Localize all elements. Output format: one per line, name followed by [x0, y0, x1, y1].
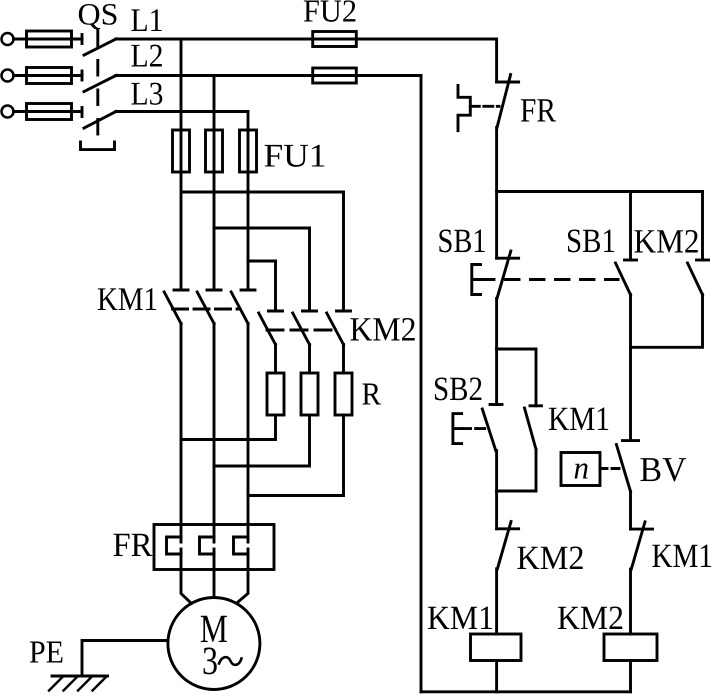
wire SB1 right column: [629, 192, 632, 261]
wire KM2 pole3 down: [342, 345, 345, 374]
contactor KM2 pole3: [327, 311, 351, 345]
wire L1 input: [14, 38, 83, 41]
SB1 actuator E: [472, 265, 481, 295]
svg-text:KM1: KM1: [652, 538, 713, 575]
contactor KM1 pole2: [197, 290, 221, 324]
SB1 linkage dashed: [481, 278, 619, 281]
branch phase3 vertical: [274, 261, 277, 311]
FR link dashed: [470, 105, 499, 108]
wire L3: [116, 110, 248, 113]
FR heater3 stub: [247, 549, 250, 570]
terminal L2: [2, 70, 14, 82]
QS handle bracket: [81, 142, 115, 150]
coil KM2: [604, 634, 657, 661]
wire KM1 aux rejoin: [497, 449, 536, 491]
SB2 link dashed: [462, 427, 488, 430]
branch phase2 vertical: [308, 228, 311, 311]
terminal L3: [2, 106, 14, 118]
ground bar: [52, 675, 108, 678]
control rail left (from FU2b): [420, 76, 423, 692]
pushbutton SB1 NO (right): [616, 260, 637, 295]
resistor R2: [301, 373, 318, 415]
fuse FU1b: [206, 130, 223, 172]
switch QS pole2: [82, 71, 116, 92]
control top horizontal: [497, 190, 703, 193]
svg-text:FU1: FU1: [264, 139, 327, 175]
wire phase3 drop: [247, 112, 250, 131]
svg-text:QS: QS: [78, 0, 119, 32]
wire KM2 coil to bus: [629, 661, 632, 692]
wire L3 input: [14, 110, 83, 113]
wire phase1 to FR: [180, 324, 183, 543]
svg-text:L2: L2: [131, 39, 164, 75]
svg-text:SB1: SB1: [566, 223, 616, 260]
SB2 actuator E: [453, 414, 462, 444]
terminal L1: [2, 33, 14, 45]
svg-text:PE: PE: [29, 634, 64, 670]
wire FR to SB1: [495, 128, 498, 259]
contact BV NO: [616, 441, 638, 492]
wire KM2 aux rejoin: [631, 295, 703, 348]
FR heater3: [234, 537, 249, 554]
wire L1: [116, 38, 497, 41]
POWER-SECTION: [2, 0, 497, 691]
wire phase1 drop: [180, 39, 183, 130]
svg-text:BV: BV: [640, 450, 687, 489]
branch phase2 horizontal: [214, 227, 310, 230]
svg-text:FU2: FU2: [303, 0, 357, 29]
wire phase2 to KM1: [213, 172, 216, 290]
contact KM1 aux NO: [525, 406, 542, 450]
branch phase3 horizontal: [248, 260, 276, 263]
motor lead1: [181, 570, 191, 603]
contactor KM2 pole2: [293, 311, 317, 345]
wire phase2 to FR: [213, 324, 216, 543]
svg-text:KM1: KM1: [548, 401, 610, 438]
contactor KM1 pole3: [231, 290, 255, 324]
wire to KM2 coil: [629, 569, 632, 634]
svg-text:KM1: KM1: [427, 600, 494, 637]
branch to KM1 aux: [497, 349, 536, 406]
resistor R3: [335, 373, 352, 415]
wire SB1r to BV: [629, 295, 632, 441]
svg-text:KM2: KM2: [517, 540, 585, 577]
supply fuse row3: [27, 104, 72, 120]
fuse FU1a: [173, 130, 190, 172]
wire L1 corner down: [495, 39, 498, 82]
svg-text:KM2: KM2: [557, 600, 624, 637]
CONTROL-SECTION: [421, 39, 713, 692]
wire KM2 pole2 down: [308, 345, 311, 374]
KM1 linkage dashed: [173, 308, 239, 311]
wire SB2 down: [495, 451, 498, 529]
wire phase3 to KM1: [247, 172, 250, 290]
wire phase2 drop: [213, 76, 216, 131]
branch phase1 horizontal: [181, 191, 344, 194]
switch QS pole1: [82, 35, 116, 56]
KM2 linkage dashed: [267, 329, 336, 332]
FR sensor bracket: [458, 86, 470, 131]
speed sensor n box: [561, 453, 600, 486]
svg-text:L1: L1: [131, 3, 164, 39]
supply fuse row2: [27, 68, 72, 84]
wire KM2 pole1 down: [274, 345, 277, 374]
wire KM2 aux column: [701, 192, 704, 261]
wire R2 rejoin: [214, 415, 310, 466]
svg-text:KM1: KM1: [97, 282, 158, 318]
ground hatch1: [49, 677, 63, 691]
FR heater2 stub: [213, 549, 216, 570]
contactor KM2 pole1: [259, 311, 283, 345]
thermal relay FR box: [154, 525, 274, 570]
motor lead2: [213, 570, 216, 598]
svg-text:SB1: SB1: [438, 223, 487, 260]
svg-text:KM2: KM2: [350, 312, 417, 349]
relay contact FR (NC): [497, 75, 519, 128]
pushbutton SB2 NO: [482, 405, 502, 451]
wire to KM1 coil: [495, 569, 498, 634]
wire SB1 to SB2: [495, 298, 498, 404]
svg-text:FR: FR: [113, 527, 153, 564]
FR heater1: [167, 537, 182, 554]
svg-text:L3: L3: [131, 77, 164, 113]
wire BV to KM1 NC: [629, 491, 632, 529]
svg-text:3: 3: [202, 638, 218, 683]
wire phase3 to FR: [247, 324, 250, 543]
svg-text:n: n: [574, 450, 590, 486]
motor lead3: [237, 570, 248, 603]
fuse FU2a: [313, 32, 357, 47]
wire KM1 coil to bus: [495, 661, 498, 692]
FR heater2: [200, 537, 215, 554]
svg-text:SB2: SB2: [433, 371, 483, 408]
ground hatch4: [93, 677, 107, 691]
switch QS pole3: [82, 108, 116, 129]
motor M circle: [168, 598, 260, 690]
PE wire: [82, 641, 168, 677]
ground hatch3: [78, 677, 92, 691]
FR heater1 stub: [180, 549, 183, 570]
contact KM2 NC interlock: [497, 522, 519, 569]
resistor R1: [267, 373, 284, 415]
BV link dashed: [600, 467, 621, 470]
pushbutton SB1 NC: [497, 251, 519, 298]
contactor KM1 pole1: [164, 290, 188, 324]
fuse FU2b: [313, 68, 357, 83]
svg-text:R: R: [362, 376, 382, 412]
tilde of 3~: [219, 657, 242, 665]
QS linkage dashed: [96, 31, 99, 148]
contact KM2 aux NO: [688, 260, 709, 295]
contact KM1 NC interlock: [631, 522, 653, 569]
svg-text:FR: FR: [520, 93, 556, 130]
ground hatch2: [64, 677, 78, 691]
coil KM1: [471, 634, 522, 661]
wire R1 rejoin: [181, 415, 276, 440]
branch phase1 vertical: [342, 192, 345, 311]
wire R3 rejoin: [248, 415, 344, 496]
wire L2: [116, 74, 421, 77]
svg-text:KM2: KM2: [634, 224, 700, 261]
fuse FU1c: [240, 130, 257, 172]
wire L2 input: [14, 74, 83, 77]
bottom bus: [421, 690, 631, 693]
supply fuse row1: [27, 31, 72, 47]
wire phase1 to KM1: [180, 172, 183, 290]
